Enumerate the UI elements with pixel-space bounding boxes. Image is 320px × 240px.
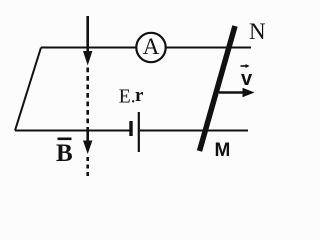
svg-text:v: v	[241, 68, 253, 90]
svg-text:B: B	[56, 140, 73, 167]
svg-text:A: A	[143, 34, 160, 59]
svg-text:M: M	[215, 140, 231, 161]
svg-text:r: r	[135, 85, 144, 106]
svg-text:E.: E.	[119, 87, 136, 108]
svg-text:N: N	[249, 19, 266, 44]
